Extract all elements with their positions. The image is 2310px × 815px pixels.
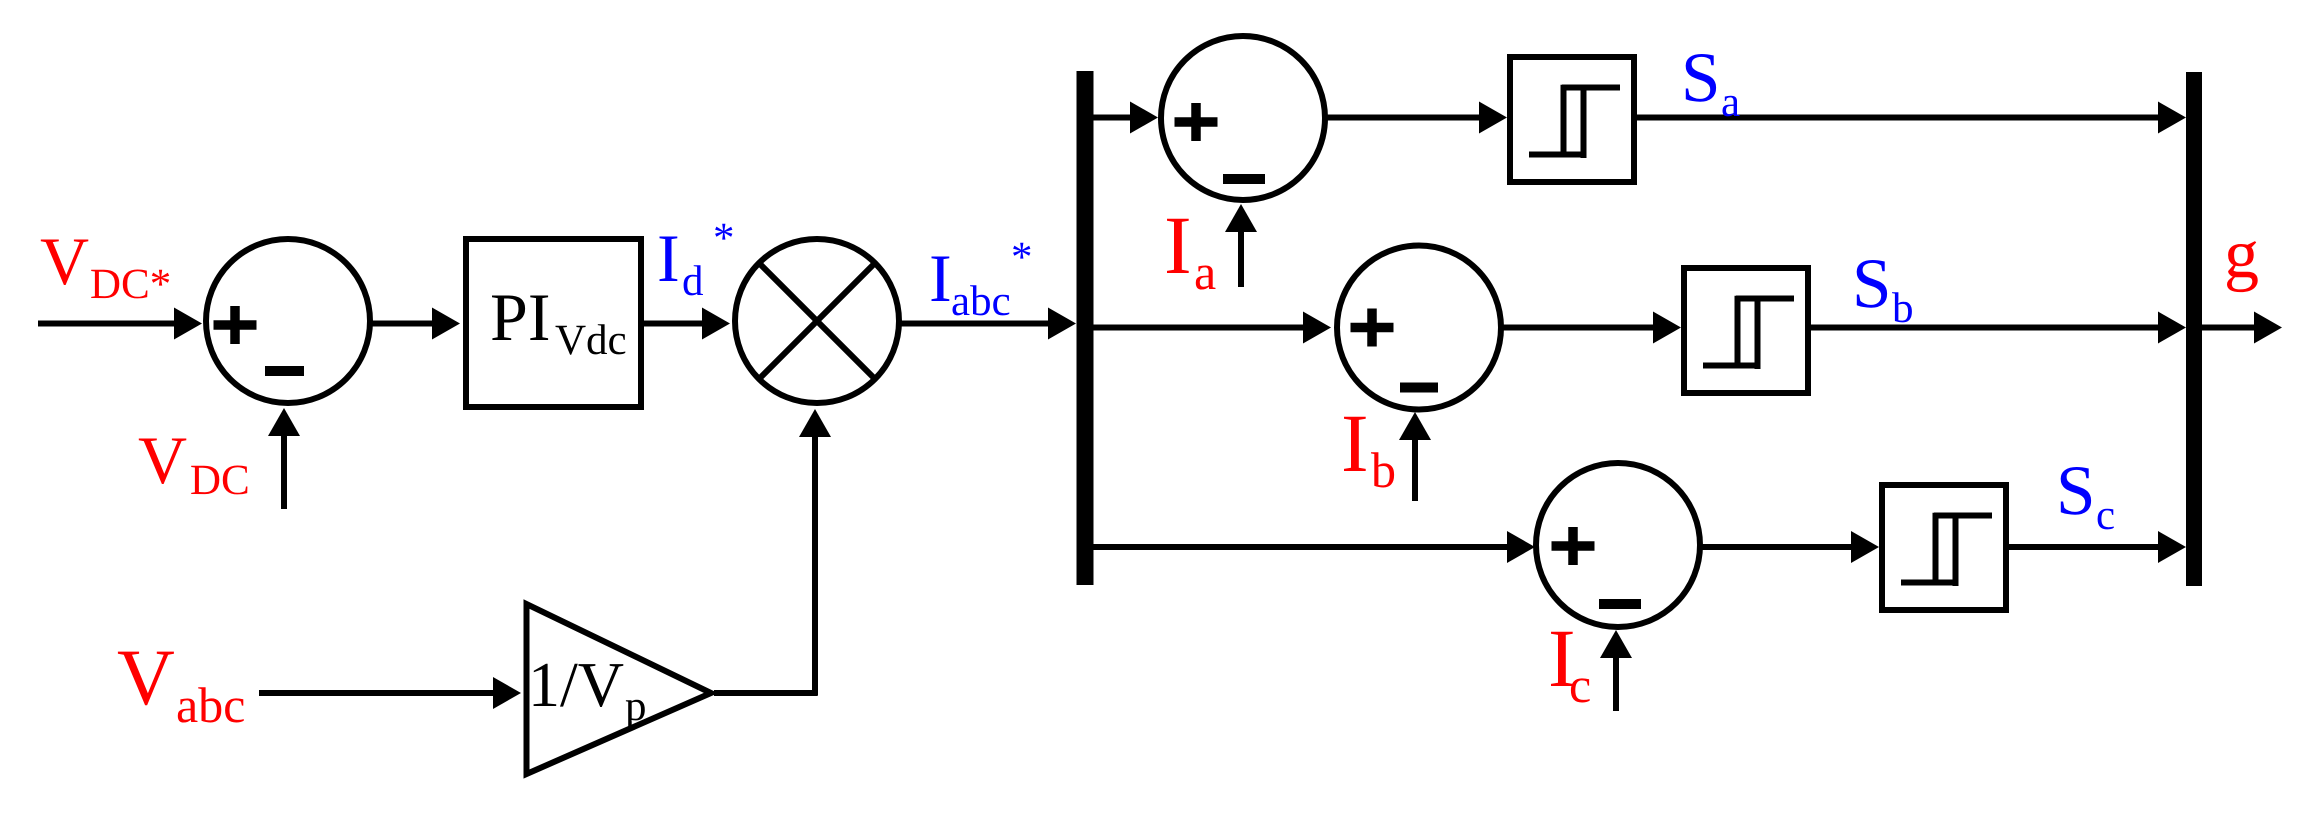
label Vabc (grid voltages) <box>118 652 244 723</box>
wire multiplier to branch bar <box>899 321 1048 327</box>
arrowhead into relay B <box>1653 312 1681 344</box>
wire summer U1 to PI block <box>370 321 432 327</box>
label 1/Vp (gain) <box>534 664 645 729</box>
relay block A box <box>1510 57 1634 182</box>
label Sa (phase a switching signal) <box>1686 54 1740 116</box>
wire gain triangle to multiplier horizontal <box>714 690 818 696</box>
label VDC (measured dc voltage) <box>139 439 248 495</box>
arrowhead g output <box>2254 312 2282 344</box>
summer U4 minus sign <box>1400 383 1438 393</box>
summer U3 minus sign <box>1223 174 1265 184</box>
arrowhead Ic into summer U5 <box>1600 630 1632 658</box>
label VDC* (reference dc voltage) <box>41 240 169 299</box>
wire summer U4 to relay B <box>1501 325 1653 331</box>
label Sb (phase b switching signal) <box>1857 260 1912 322</box>
wire Ib feedback vertical <box>1412 440 1418 501</box>
arrowhead into summer U1 <box>174 308 202 340</box>
PI controller block PIVdc <box>466 239 641 407</box>
wire relay C to output bar (Sc) <box>2009 544 2158 550</box>
summer U1 minus sign <box>265 366 304 376</box>
wire Ia feedback vertical <box>1238 232 1244 287</box>
wire Vabc input <box>259 690 494 696</box>
arrowhead Ib into summer U4 <box>1399 412 1431 440</box>
summer U4 plus sign <box>1351 309 1394 347</box>
summer U3 plus sign <box>1175 103 1218 141</box>
wire Ic feedback vertical <box>1613 658 1619 711</box>
arrowhead into summer U4 <box>1303 312 1331 344</box>
arrowhead into summer U5 <box>1507 531 1535 563</box>
arrowhead VDC into summer U1 <box>268 408 300 436</box>
label PIVdc <box>492 296 625 355</box>
wire gain triangle to multiplier vertical <box>812 437 818 696</box>
branch bar (demux) <box>1077 71 1094 585</box>
arrowhead Sa into output bar <box>2158 102 2186 134</box>
gain block 1/Vp triangle <box>527 604 712 774</box>
arrowhead into multiplier bottom <box>799 409 831 437</box>
label Id* (d-axis current reference) <box>660 224 733 296</box>
wire VDC* input <box>38 321 174 327</box>
arrowhead Sc into output bar <box>2158 531 2186 563</box>
arrowhead Sb into output bar <box>2158 312 2186 344</box>
summer U5 circle (phase c) <box>1536 463 1700 627</box>
summer U5 minus sign <box>1599 599 1641 609</box>
wire bar to summer U4 (phase b) <box>1094 325 1304 331</box>
summer U1 plus sign <box>214 306 257 344</box>
arrowhead into relay A <box>1479 102 1507 134</box>
relay C hysteresis icon <box>1901 513 1992 586</box>
wire VDC feedback vertical <box>281 434 287 509</box>
relay block C box <box>1882 485 2006 610</box>
multiplier U2 X cross <box>759 263 875 379</box>
summer U1 circle <box>206 239 370 403</box>
arrowhead into PI block <box>432 308 460 340</box>
label Ic (phase c current) <box>1551 632 1590 703</box>
wire summer U3 to relay A <box>1325 115 1479 121</box>
wire PI block to multiplier <box>643 321 702 327</box>
label Ib (phase b current) <box>1344 417 1394 488</box>
summer U5 plus sign <box>1552 527 1595 565</box>
relay B hysteresis icon <box>1703 296 1794 369</box>
summer U4 circle (phase b) <box>1337 246 1501 410</box>
output bar (mux) <box>2186 72 2202 586</box>
arrowhead into summer U3 <box>1130 102 1158 134</box>
label g (gate signals) <box>2227 241 2258 292</box>
arrowhead into branch bar <box>1048 308 1076 340</box>
wire relay A to output bar (Sa) <box>1637 115 2158 121</box>
arrowhead into relay C <box>1851 531 1879 563</box>
multiplier U2 circle <box>735 239 899 403</box>
label Sc (phase c switching signal) <box>2061 467 2114 529</box>
wire bar to summer U3 (phase a) <box>1094 115 1131 121</box>
wire bar to summer U5 (phase c) <box>1094 544 1508 550</box>
arrowhead into gain triangle <box>493 677 521 709</box>
label Ia (phase a current) <box>1167 219 1216 290</box>
wire g output <box>2202 325 2254 331</box>
arrowhead into multiplier <box>702 308 730 340</box>
label Iabc* (reference currents) <box>932 243 1031 316</box>
summer U3 circle (phase a) <box>1161 36 1325 200</box>
wire relay B to output bar (Sb) <box>1811 325 2158 331</box>
relay block B box <box>1684 268 1808 393</box>
wire summer U5 to relay C <box>1700 544 1851 550</box>
arrowhead Ia into summer U3 <box>1225 204 1257 232</box>
relay A hysteresis icon <box>1529 85 1620 158</box>
